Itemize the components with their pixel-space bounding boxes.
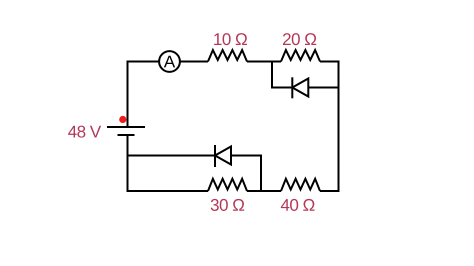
battery V1 positive terminal dot xyxy=(119,116,126,123)
resistor R3 30 ohm xyxy=(208,179,247,191)
label: R1 value 10 ohm xyxy=(214,33,247,45)
label: R3 value 30 ohm xyxy=(211,199,244,211)
wire: R1 to R2 (node A branch at x=272) xyxy=(247,61,281,63)
diode D2 triangle xyxy=(215,147,231,165)
resistor R4 40 ohm xyxy=(281,179,320,191)
wire: branch from node A down to diode D1 xyxy=(272,62,292,88)
battery V1 positive plate xyxy=(107,126,145,128)
wire: diode D2 to node C between R3 and R4 xyxy=(231,156,261,192)
ammeter A1 body xyxy=(159,51,180,72)
label: 48 V xyxy=(68,126,101,138)
wire: node B to diode D2 cathode xyxy=(128,155,216,157)
resistor R2 20 ohm xyxy=(281,50,320,62)
battery V1 negative plate xyxy=(118,134,135,136)
wire: ammeter to resistor R1 xyxy=(180,61,208,63)
wire: battery negative down left side and bottom-left corner xyxy=(128,135,209,191)
diode D1 cathode bar xyxy=(291,77,293,98)
resistor R1 10 ohm xyxy=(208,50,247,62)
diode D1 triangle xyxy=(292,79,308,97)
diode D2 cathode bar xyxy=(214,145,216,167)
label: R2 value 20 ohm xyxy=(283,33,316,45)
wire: left top segment and top wire to ammeter xyxy=(128,62,159,127)
wire: diode D1 to right vertical xyxy=(308,87,338,89)
label: R4 value 40 ohm xyxy=(281,199,315,211)
wire: R3 to R4 (node C junction) xyxy=(247,190,281,192)
ammeter A1 label xyxy=(164,56,175,68)
wire: top-right corner, right vertical and bottom-right corner xyxy=(320,62,339,192)
